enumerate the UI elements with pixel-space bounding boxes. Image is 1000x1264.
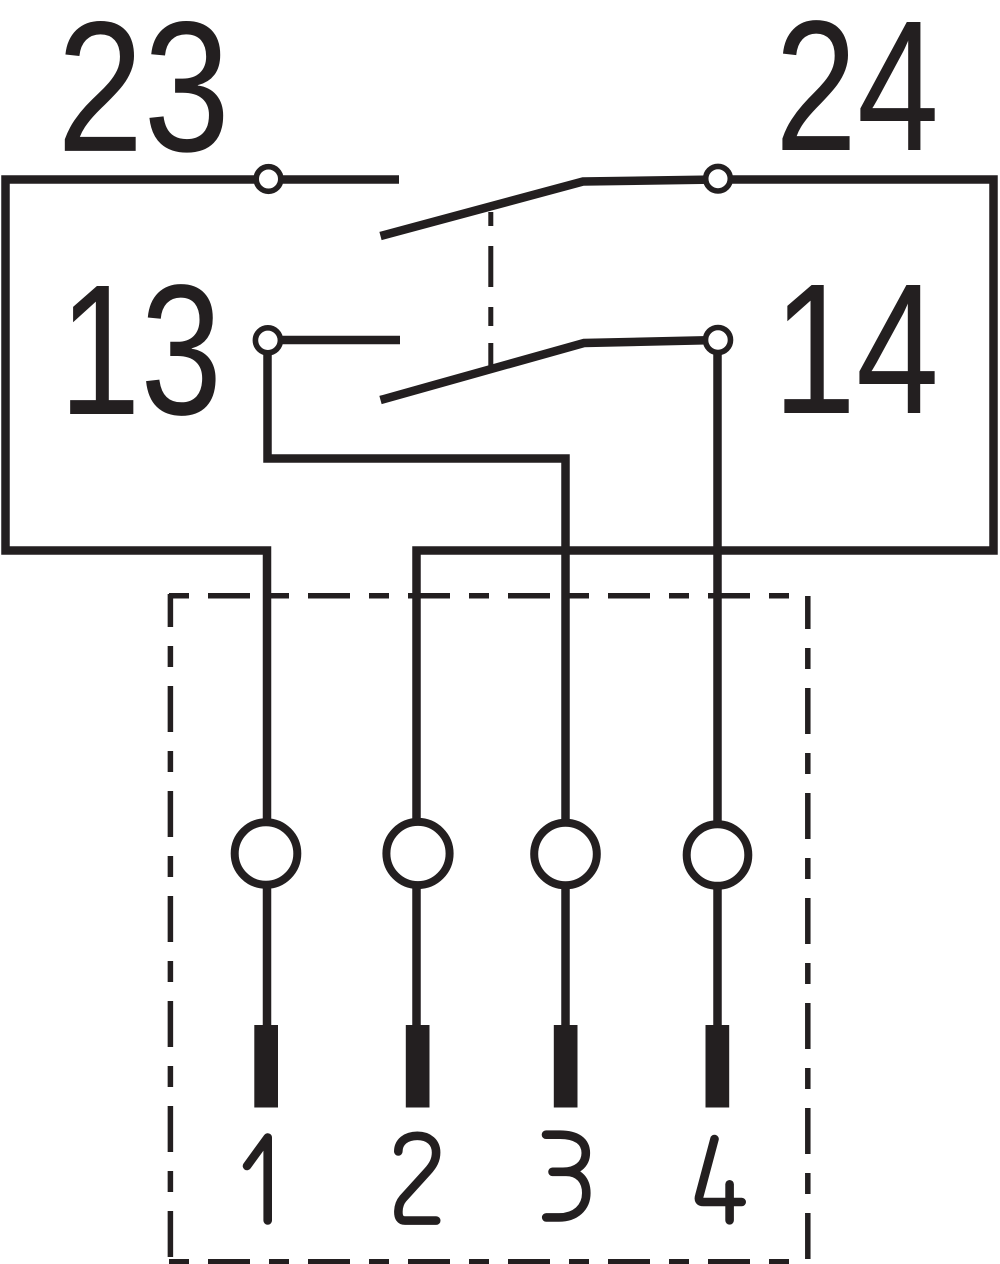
svg-text:13: 13 — [59, 247, 222, 454]
svg-text:23: 23 — [57, 0, 230, 191]
svg-text:24: 24 — [775, 0, 939, 190]
svg-text:14: 14 — [773, 246, 939, 453]
